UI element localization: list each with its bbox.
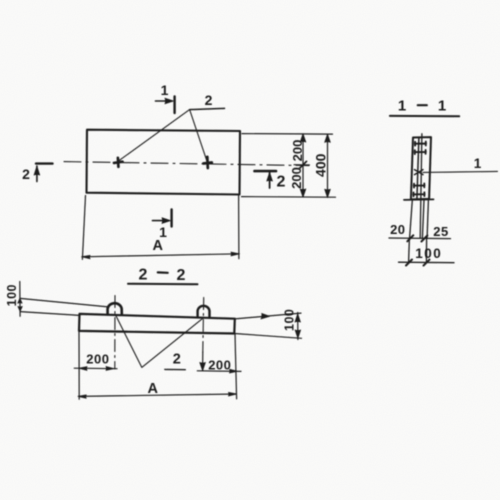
svg-text:100: 100 xyxy=(282,309,296,331)
svg-text:2: 2 xyxy=(277,174,286,191)
svg-text:A: A xyxy=(148,381,159,397)
svg-text:2: 2 xyxy=(22,166,30,182)
svg-text:2: 2 xyxy=(205,92,213,108)
svg-text:100: 100 xyxy=(5,284,19,306)
svg-text:2: 2 xyxy=(177,267,186,284)
svg-text:400: 400 xyxy=(313,153,329,177)
svg-text:2: 2 xyxy=(173,352,181,368)
svg-text:20: 20 xyxy=(390,222,405,237)
svg-text:200: 200 xyxy=(290,140,305,162)
svg-text:1: 1 xyxy=(474,156,482,171)
svg-text:100: 100 xyxy=(415,246,442,261)
svg-text:1: 1 xyxy=(438,97,446,114)
svg-text:1: 1 xyxy=(161,82,169,98)
svg-text:A: A xyxy=(153,238,164,254)
svg-text:2: 2 xyxy=(139,266,148,283)
svg-text:200: 200 xyxy=(86,352,109,367)
svg-text:200: 200 xyxy=(208,357,231,372)
svg-text:25: 25 xyxy=(433,224,448,239)
svg-text:200: 200 xyxy=(289,167,304,189)
svg-text:1: 1 xyxy=(398,97,406,114)
